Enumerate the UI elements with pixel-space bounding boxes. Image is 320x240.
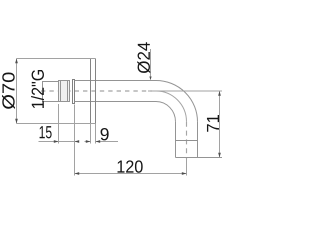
- wire: centerline arc through elbow: [156, 91, 187, 122]
- seam line on down tube: [176, 140, 198, 142]
- arrow Ø70 top: [15, 59, 18, 64]
- elbow outer arc: [156, 81, 198, 122]
- dimension 15: extension line at thread start: [58, 104, 60, 144]
- wire: horizontal centerline of spout pipe: [41, 90, 152, 92]
- arrow 9 left (outside, pointing right): [86, 140, 91, 143]
- label Ø70: [2, 72, 15, 109]
- flange plate (Ø70): [91, 59, 96, 124]
- wall stop ring: [73, 80, 75, 104]
- arrow 120 left: [75, 172, 80, 175]
- dimension 9: dimension line segments: [85, 141, 119, 143]
- arrow 9 right (outside, pointing left): [96, 140, 101, 143]
- label 15: [40, 126, 52, 138]
- label 120: [118, 160, 143, 172]
- down tube right wall: [197, 122, 199, 158]
- arrow 120 right: [182, 172, 187, 175]
- threaded section 1/2"G: [59, 81, 70, 102]
- label Ø24: [137, 42, 150, 73]
- label 1/2&quot;G: [31, 70, 44, 108]
- arrow Ø24 leader tip: [149, 77, 151, 81]
- dimension 9: extension lines from flange: [91, 124, 96, 144]
- dimension 120: right extension (tube centerline extended): [186, 159, 188, 176]
- spout pipe top line: [75, 80, 157, 82]
- label 71: [207, 115, 219, 132]
- dimension 120: dimension line: [75, 173, 187, 175]
- arrow 71 top: [218, 91, 221, 96]
- outlet bottom edge + extension to 71 dim: [176, 157, 223, 159]
- shared extension line (15 right / 120 left) at wall face: [74, 105, 76, 176]
- dimension 71: top extension line at pipe centerline: [148, 90, 222, 92]
- arrow Ø70 bottom: [15, 119, 18, 124]
- spout pipe bottom line: [75, 101, 157, 103]
- supply nipple smooth section: [43, 82, 59, 102]
- label Ø24: leader line: [150, 49, 152, 80]
- arrow 15 left (outside, pointing right): [54, 140, 59, 143]
- dimension 15: dimension line: [39, 141, 80, 143]
- elbow inner arc: [156, 102, 176, 122]
- arrow 71 bottom: [218, 153, 221, 158]
- dimension 71: dimension line: [219, 91, 221, 158]
- dimension Ø70: dimension line: [16, 59, 18, 124]
- down tube left wall: [175, 122, 177, 158]
- dimension Ø70: extension lines: [17, 59, 96, 124]
- wire: vertical centerline of down tube: [186, 122, 188, 159]
- label 9: [101, 128, 109, 140]
- arrow 15 right (outside, pointing left): [75, 140, 80, 143]
